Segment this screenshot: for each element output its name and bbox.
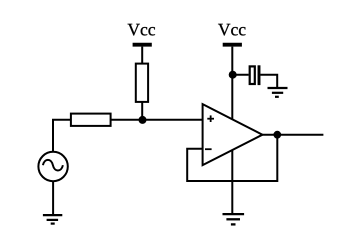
wire: source bottom to ground [52, 182, 54, 215]
wire: source corner up-right to resistor R2 [53, 120, 71, 152]
Vcc power-rail bar (left supply) [133, 43, 152, 47]
wire: Vcc bar down to op-amp V+ pin (through node B) [231, 47, 233, 120]
Vcc power-rail bar (right supply) [223, 43, 242, 47]
op-amp - input marking [205, 148, 212, 150]
wire: resistor R2 to op-amp + input through node A [111, 119, 203, 121]
node A (junction dot R1/R2/op-amp) [139, 116, 147, 124]
capacitor C1 solid plate [258, 65, 261, 85]
node B (junction dot to decoupling capacitor) [229, 71, 237, 79]
op-amp + input marking [207, 115, 214, 122]
op-amp U1 (triangle) [203, 104, 263, 165]
wire: op-amp V- pin down to ground [231, 150, 233, 215]
AC source sine wave [43, 160, 63, 171]
resistor R2 (series input, horizontal) [71, 114, 111, 126]
capacitor C1 (polarized, open-box plate) [250, 66, 255, 84]
wire: op-amp output to right edge [262, 134, 323, 136]
AC source V1 (circle) [38, 152, 67, 181]
resistor R1 (vertical pull-up) [136, 64, 148, 102]
wire: capacitor C1 to right ground [260, 75, 277, 87]
wire: node B to capacitor C1 [232, 74, 248, 76]
wire: resistor R1 bottom to node A [141, 102, 143, 120]
wire: Vcc bar to resistor R1 top [141, 47, 143, 65]
ground (below AC source) [43, 215, 62, 224]
Vcc label (right supply) [218, 24, 245, 36]
Vcc label (left supply) [128, 24, 155, 36]
ground (right of capacitor) [268, 88, 288, 97]
node C (output junction dot) [273, 131, 281, 139]
wire: feedback loop output to - input [187, 135, 277, 181]
ground (below op-amp) [223, 214, 245, 224]
